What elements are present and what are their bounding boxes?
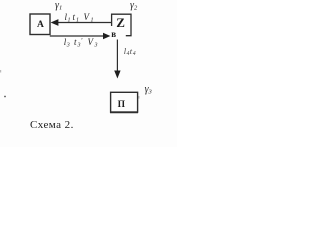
wire: bottom arrow from A to node B xyxy=(50,35,104,37)
speck xyxy=(138,96,139,99)
svg-text:Схема 2.: Схема 2. xyxy=(30,119,74,131)
speck xyxy=(0,70,1,73)
wire: top arrow from Z to A xyxy=(57,22,112,24)
arrowhead into P xyxy=(114,71,120,79)
arrowhead into node B xyxy=(103,33,110,40)
block A xyxy=(30,14,50,35)
speck xyxy=(4,96,6,98)
wire: vertical arrow from node B down to P xyxy=(116,40,118,72)
block P xyxy=(111,92,138,112)
svg-text:Π: Π xyxy=(118,100,126,110)
block Z xyxy=(112,14,131,36)
arrowhead into A xyxy=(51,19,59,26)
svg-text:A: A xyxy=(37,20,44,30)
svg-text:в: в xyxy=(111,29,116,39)
svg-text:Z: Z xyxy=(116,15,125,30)
